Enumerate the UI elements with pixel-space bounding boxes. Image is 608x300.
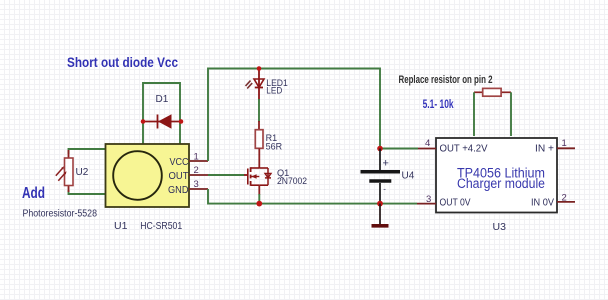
svg-text:VCC: VCC [170, 157, 189, 168]
svg-text:2: 2 [194, 165, 199, 176]
module U1 HC-SR501 [106, 144, 190, 207]
svg-text:2N7002: 2N7002 [277, 176, 307, 186]
svg-text:OUT +4.2V: OUT +4.2V [440, 144, 488, 155]
node: D1 right junction [179, 119, 184, 124]
node: Q1 source junction [256, 201, 262, 207]
svg-text:LED: LED [266, 86, 282, 96]
pin 1 VCC stub [189, 152, 208, 163]
node: battery top junction [377, 146, 383, 152]
battery U4 [361, 149, 415, 204]
node: battery bottom junction [377, 201, 383, 207]
wire: LED1 to R1 [258, 99, 260, 122]
svg-text:D1: D1 [156, 94, 169, 105]
svg-text:U1: U1 [114, 220, 128, 232]
wire: top rail junction to U3 pin 4 [380, 148, 418, 150]
wire: Q1 source to bottom rail [258, 194, 260, 204]
pin 2 OUT stub [189, 165, 208, 176]
svg-text:3: 3 [194, 179, 199, 190]
wire: VCC to top rail [208, 69, 380, 162]
LED LED1 [246, 69, 288, 101]
photoresistor U2 [56, 150, 89, 192]
svg-text:GND: GND [168, 185, 189, 196]
svg-text:Photoresistor-5528: Photoresistor-5528 [23, 209, 98, 220]
wire: U2 top lead to U1 [69, 149, 106, 154]
svg-text:5.1- 10k: 5.1- 10k [423, 99, 454, 111]
svg-text:IN +: IN + [535, 144, 554, 155]
svg-text:IN 0V: IN 0V [531, 198, 554, 209]
svg-text:1: 1 [194, 152, 199, 163]
svg-text:1: 1 [562, 138, 567, 149]
svg-text:Replace resistor on pin 2: Replace resistor on pin 2 [399, 74, 493, 86]
node: LED1 top junction [257, 66, 262, 71]
diode D1 [143, 94, 181, 129]
svg-text:-: - [383, 185, 386, 194]
svg-text:OUT: OUT [169, 171, 189, 182]
svg-text:Charger module: Charger module [457, 176, 545, 191]
pin 1 stub (U3 right top) [557, 138, 575, 149]
wire: GND to bottom rail [208, 189, 417, 204]
svg-text:U3: U3 [493, 221, 507, 233]
pin 3 stub (U3 left bottom) [417, 194, 436, 205]
svg-text:Add: Add [22, 185, 45, 202]
svg-text:OUT 0V: OUT 0V [440, 198, 471, 209]
wire: U2 bottom lead to U1 [69, 190, 106, 194]
pin 4 stub (U3 left top) [418, 138, 436, 149]
ground [372, 204, 389, 226]
wire: replacement resistor right leg [510, 92, 512, 136]
svg-text:HC-SR501: HC-SR501 [140, 220, 182, 232]
svg-text:U4: U4 [402, 171, 415, 182]
resistor R (replacement, top right) [474, 88, 511, 96]
wire: OUT to Q1 gate [208, 174, 244, 176]
pin 2 stub (U3 right bottom) [557, 192, 575, 203]
svg-text:+: + [383, 158, 389, 170]
svg-text:3: 3 [426, 194, 431, 205]
resistor R1 [255, 121, 282, 168]
wire: replacement resistor left leg [473, 92, 475, 136]
svg-text:U2: U2 [76, 167, 89, 178]
node: D1 left junction [141, 119, 146, 124]
transistor Q1 2N7002 [244, 167, 307, 195]
module U3 TP4056 [436, 138, 557, 213]
svg-text:4: 4 [425, 138, 430, 149]
wire: diode bypass loop left [143, 83, 180, 144]
svg-text:56R: 56R [266, 142, 283, 152]
svg-text:2: 2 [562, 192, 567, 203]
pin 3 GND stub [189, 179, 208, 190]
svg-text:Short out diode Vcc: Short out diode Vcc [67, 54, 178, 70]
